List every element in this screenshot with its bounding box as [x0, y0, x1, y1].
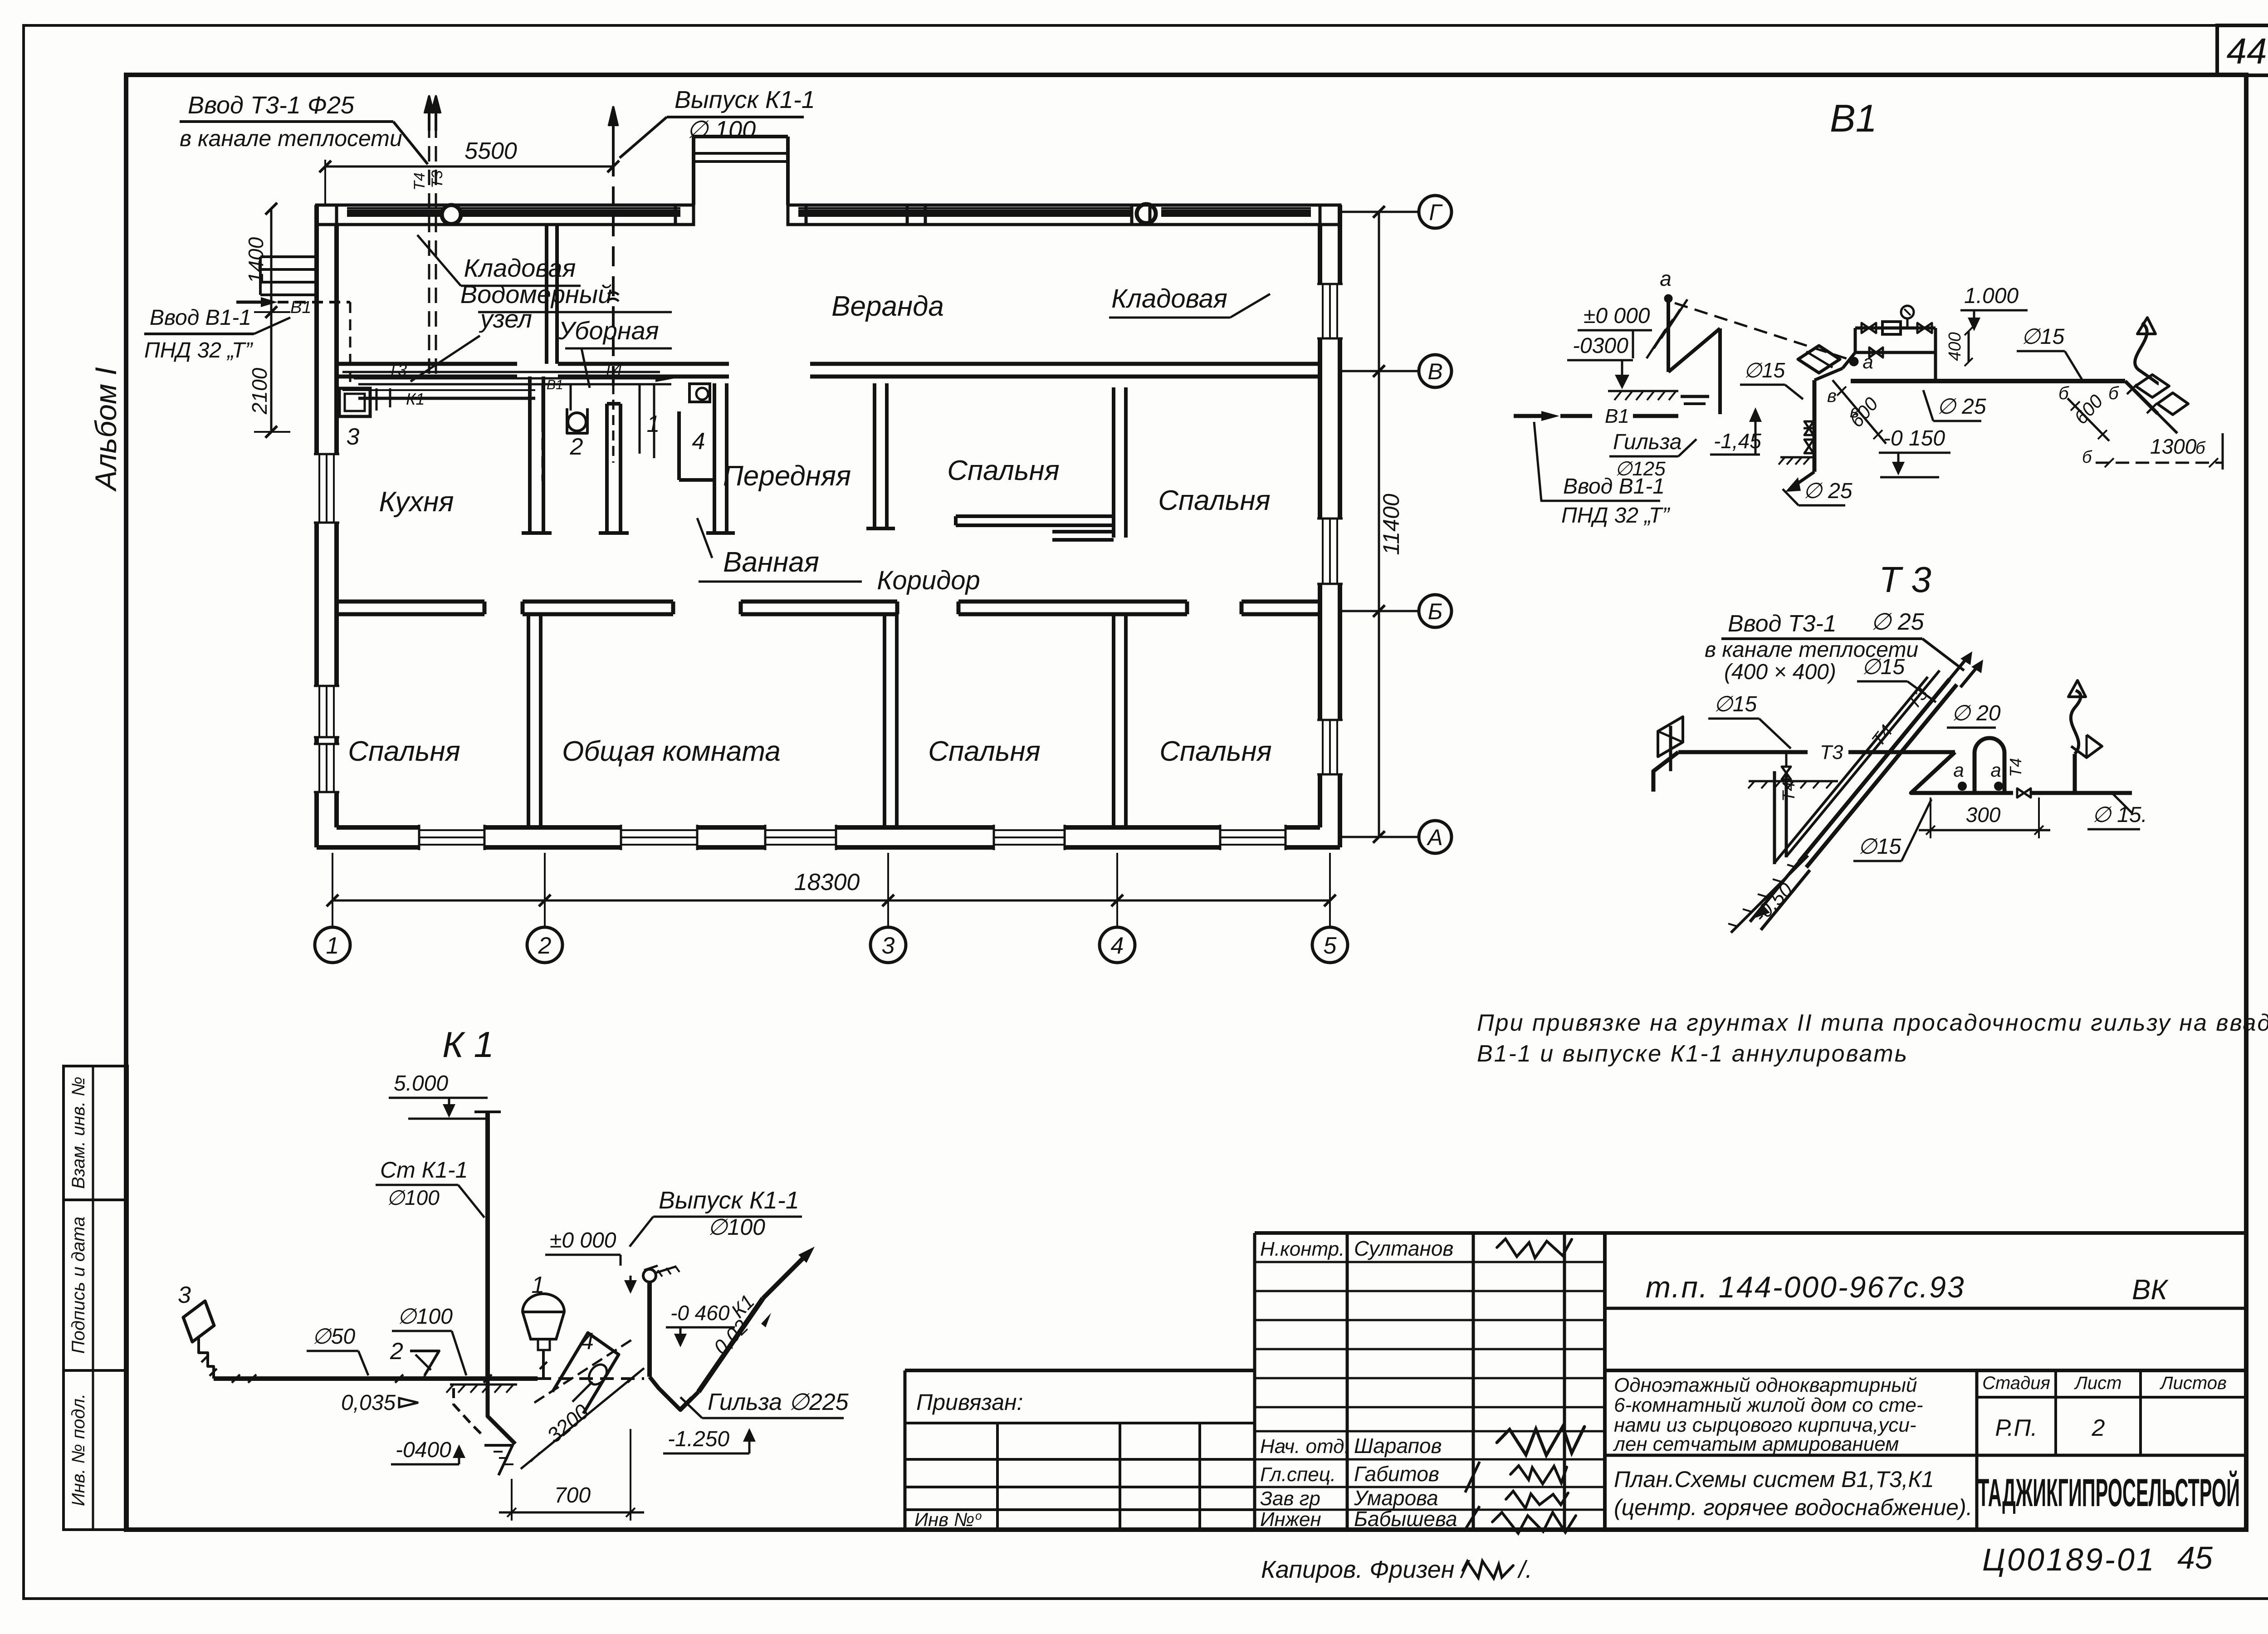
svg-text:Одноэтажный одноквартирный: Одноэтажный одноквартирный [1614, 1374, 1917, 1396]
svg-text:∅15: ∅15 [2021, 325, 2065, 349]
margin box Подпись и дата [64, 1200, 127, 1370]
svg-text:(центр. горячее водоснабжение): (центр. горячее водоснабжение). [1614, 1495, 1973, 1520]
svg-text:Т3: Т3 [1820, 741, 1843, 763]
svg-text:Стадия: Стадия [1982, 1373, 2050, 1393]
svg-text:Спальня: Спальня [348, 736, 460, 767]
K1 ticks on main pipe [232, 1375, 240, 1383]
svg-text:Умарова: Умарова [1354, 1486, 1438, 1510]
svg-text:Капиров. Фризен /: Капиров. Фризен / [1261, 1556, 1470, 1583]
svg-text:5.000: 5.000 [394, 1071, 448, 1096]
B1 right drop group [2125, 381, 2158, 414]
dimension 18300 bottom [332, 900, 1330, 902]
svg-text:6-комнатный жилой дом со сте-: 6-комнатный жилой дом со сте- [1614, 1394, 1923, 1416]
svg-text:11400: 11400 [1378, 494, 1404, 555]
svg-text:б: б [2108, 383, 2119, 403]
svg-text:Т4: Т4 [2006, 758, 2025, 777]
svg-text:∅50: ∅50 [312, 1325, 356, 1349]
margin box Инв. № подл. [64, 1370, 127, 1530]
svg-text:∅15: ∅15 [1714, 692, 1757, 716]
svg-text:Г: Г [1429, 200, 1443, 225]
K1 bath parallelogram [552, 1333, 619, 1414]
svg-text:Кладовая: Кладовая [1111, 284, 1227, 313]
svg-text:2100: 2100 [248, 367, 271, 415]
B1 diagonal dim 600 left [1833, 380, 1886, 444]
sink fixture plan [689, 384, 710, 402]
svg-text:В1-1 и выпуске К1-1 аннулирова: В1-1 и выпуске К1-1 аннулировать [1477, 1041, 1908, 1067]
svg-text:∅100: ∅100 [386, 1186, 440, 1209]
svg-text:1: 1 [647, 411, 660, 437]
veranda window rail [347, 210, 442, 217]
svg-text:Т4: Т4 [411, 172, 428, 191]
svg-text:Выпуск К1-1: Выпуск К1-1 [675, 86, 815, 113]
svg-text:2: 2 [390, 1338, 403, 1365]
svg-text:-1,45: -1,45 [1714, 429, 1761, 453]
svg-text:5: 5 [1324, 933, 1337, 959]
svg-text:К 1: К 1 [442, 1024, 494, 1065]
svg-text:∅100: ∅100 [397, 1305, 453, 1329]
svg-text:∅15: ∅15 [1744, 358, 1785, 382]
T3 right wavy riser [2071, 690, 2081, 754]
svg-text:∅15: ∅15 [1862, 655, 1905, 679]
svg-text:Ввод Т3-1: Ввод Т3-1 [1728, 611, 1837, 637]
T3 valve drop [1785, 752, 1788, 767]
svg-text:Спальня: Спальня [928, 736, 1041, 767]
svg-text:700: 700 [554, 1483, 591, 1507]
svg-text:5500: 5500 [464, 138, 517, 164]
B1 ground hatch [1608, 390, 1678, 392]
bedroom1 closet wall [1052, 530, 1114, 533]
svg-text:±0 000: ±0 000 [1584, 304, 1650, 328]
entrance porch top [692, 137, 695, 205]
svg-text:Спальня: Спальня [1158, 485, 1271, 516]
svg-text:Т3: Т3 [388, 361, 407, 379]
svg-text:2: 2 [570, 434, 583, 460]
svg-text:В1: В1 [1830, 97, 1877, 140]
svg-text:Зав гр: Зав гр [1260, 1487, 1320, 1510]
svg-text:Ц00189-01: Ц00189-01 [1982, 1542, 2156, 1577]
svg-text:Веранда: Веранда [831, 291, 944, 322]
svg-text:План.Схемы систем В1,Т3,К1: План.Схемы систем В1,Т3,К1 [1614, 1467, 1934, 1492]
toilet fixture plan [567, 408, 587, 433]
svg-text:Привязан:: Привязан: [916, 1389, 1023, 1415]
svg-text:3: 3 [178, 1282, 191, 1308]
svg-text:б: б [2058, 383, 2069, 403]
svg-text:2: 2 [2092, 1415, 2105, 1441]
T3 right valve and outlet [2017, 788, 2024, 797]
svg-text:4: 4 [1111, 933, 1124, 959]
svg-text:Общая комната: Общая комната [562, 736, 781, 767]
sheet number box 44 top right [2217, 25, 2268, 75]
K1 sink1 bell [523, 1294, 564, 1339]
B1 right flexible hose [2135, 323, 2159, 384]
svg-text:18300: 18300 [794, 869, 860, 895]
svg-text:∅ 100: ∅ 100 [687, 116, 756, 143]
svg-text:o: o [975, 1509, 982, 1522]
extra pipe drops near bathroom [639, 384, 641, 454]
B1 water meter assembly [1855, 327, 1936, 330]
B1 long pipe [1851, 379, 2125, 383]
K1 outlet arrow [763, 1256, 806, 1298]
north wall of heated part [337, 362, 517, 366]
svg-text:К1: К1 [406, 390, 425, 408]
svg-text:300: 300 [1966, 803, 2001, 827]
svg-text:-0400: -0400 [396, 1438, 451, 1462]
B1 right mixer diamonds [2136, 375, 2169, 397]
svg-text:В1: В1 [290, 298, 311, 317]
K1 funnel 2 [410, 1351, 439, 1375]
svg-text:4: 4 [692, 428, 705, 455]
svg-text:б: б [2195, 439, 2206, 458]
svg-text:При привязке на грунтах II тип: При привязке на грунтах II типа просадоч… [1477, 1010, 2268, 1036]
B1 inlet arrow and pipe [1514, 414, 1548, 418]
svg-text:Уборная: Уборная [558, 316, 659, 345]
T3 lower tail [1773, 771, 1776, 864]
left exterior wall [314, 205, 319, 847]
partition bedroom3-bedroom4 wall [1112, 614, 1115, 827]
svg-text:(400 × 400): (400 × 400) [1724, 660, 1836, 684]
svg-text:Гильза: Гильза [1613, 430, 1681, 454]
svg-text:Инв №: Инв № [914, 1509, 974, 1530]
svg-text:∅ 25: ∅ 25 [1937, 395, 1986, 419]
T3 zigzag to loop [1911, 752, 2013, 793]
svg-text:Инв. № подл.: Инв. № подл. [68, 1394, 88, 1506]
title block signature table grid [1253, 1233, 1256, 1530]
riser pipes T4 T3 dashed [428, 122, 430, 377]
svg-text:44: 44 [2227, 31, 2267, 71]
dimension 11400 right [1378, 212, 1380, 837]
K1 main pipe [214, 1376, 538, 1381]
svg-text:а: а [1862, 351, 1873, 372]
svg-text:Н.контр.: Н.контр. [1260, 1238, 1344, 1260]
svg-text:Коридор: Коридор [877, 566, 980, 595]
partition toilet east wall [605, 404, 609, 533]
pipe bundle along north wall [342, 371, 660, 373]
partition bathroom east wall [713, 383, 716, 533]
storeroom east wall in veranda [545, 225, 548, 364]
svg-text:Лист: Лист [2074, 1373, 2122, 1393]
svg-text:Ввод Т3-1 Ф25: Ввод Т3-1 Ф25 [188, 92, 355, 119]
svg-text:∅ 25: ∅ 25 [1803, 479, 1853, 503]
veranda round column right [1137, 204, 1156, 223]
svg-text:в: в [1827, 386, 1837, 406]
T3 right diamonds [2071, 735, 2102, 758]
T3 section points a-a [1959, 783, 1966, 790]
svg-text:а: а [1990, 759, 2001, 781]
bottom exterior wall [317, 845, 1340, 850]
svg-text:Листов: Листов [2159, 1373, 2227, 1393]
svg-text:Альбом I: Альбом I [89, 367, 122, 492]
svg-text:Подпись и дата: Подпись и дата [68, 1217, 88, 1354]
corridor south wall on axis Б [337, 600, 484, 604]
K1 outlet diagonal pipe [650, 1377, 699, 1410]
svg-text:Кладовая: Кладовая [464, 254, 576, 282]
svg-text:Бабышева: Бабышева [1354, 1507, 1457, 1531]
partition living-bedroom3 wall [883, 614, 886, 827]
sewer riser K1 dashed [612, 157, 615, 391]
svg-text:Ванная: Ванная [723, 547, 819, 578]
svg-text:ТАДЖИКГИПРОСЕЛЬСТРОЙ: ТАДЖИКГИПРОСЕЛЬСТРОЙ [1978, 1471, 2240, 1515]
svg-text:1.000: 1.000 [1964, 284, 2019, 308]
svg-text:Б: Б [1428, 599, 1443, 624]
svg-text:1400: 1400 [244, 237, 268, 284]
svg-text:Ввод В1-1: Ввод В1-1 [1563, 475, 1665, 499]
svg-text:узел: узел [479, 304, 532, 333]
margin box Взам. инв. № [64, 1066, 127, 1200]
left outside steps [260, 255, 315, 258]
K1 stack lower bend [488, 1377, 515, 1444]
K1 dim 700 [511, 1479, 513, 1521]
B1 meter riser [1813, 380, 1817, 472]
svg-text:Выпуск К1-1: Выпуск К1-1 [659, 1187, 799, 1214]
T3 dim 300 [1930, 797, 1931, 838]
svg-text:Султанов: Султанов [1354, 1237, 1453, 1260]
bath niche wall [677, 411, 681, 480]
svg-text:3: 3 [347, 424, 360, 450]
svg-text:∅ 25: ∅ 25 [1871, 609, 1925, 635]
svg-text:Инжен: Инжен [1260, 1508, 1321, 1531]
axis letter circles Г В Б А [1342, 211, 1419, 213]
K1 hatch wedge [484, 1445, 513, 1475]
svg-text:ПНД 32 „Т”: ПНД 32 „Т” [1561, 504, 1670, 528]
veranda top wall lines [317, 204, 694, 207]
svg-text:Ст К1-1: Ст К1-1 [380, 1157, 468, 1183]
svg-text:0,035: 0,035 [341, 1391, 396, 1415]
svg-text:В: В [1427, 359, 1442, 384]
svg-text:в канале теплосети: в канале теплосети [180, 126, 402, 151]
svg-text:Р.П.: Р.П. [1995, 1415, 2037, 1441]
B1 entry arrow [236, 301, 267, 304]
svg-text:Т3: Т3 [429, 170, 446, 188]
svg-text:/.: /. [1517, 1556, 1532, 1583]
svg-text:-1.250: -1.250 [668, 1427, 729, 1451]
bedroom2 south wall [956, 514, 1114, 518]
svg-text:∅100: ∅100 [708, 1214, 765, 1240]
veranda round column left [442, 205, 461, 224]
svg-text:3: 3 [882, 933, 895, 959]
B1 dim 1300 [2096, 462, 2223, 464]
svg-text:Передняя: Передняя [723, 460, 851, 492]
svg-text:Кухня: Кухня [379, 486, 454, 518]
svg-text:Спальня: Спальня [1159, 736, 1272, 767]
svg-text:т.п. 144-000-967с.93: т.п. 144-000-967с.93 [1646, 1270, 1965, 1304]
K1 diagonal dim 3200 [521, 1368, 644, 1469]
T3 main pipe [1653, 752, 1678, 792]
svg-text:±0 000: ±0 000 [550, 1228, 616, 1252]
B1 dashed sight line [1675, 303, 1849, 359]
svg-text:лен сетчатым армированием: лен сетчатым армированием [1613, 1433, 1899, 1455]
T3 ground line and -0.50 [1731, 856, 1808, 933]
veranda posts [675, 205, 694, 225]
svg-text:Т4: Т4 [603, 360, 622, 378]
svg-text:Габитов: Габитов [1354, 1462, 1439, 1486]
K1 vent top [643, 1269, 656, 1282]
partition south bedroom-living wall [527, 614, 530, 827]
svg-text:Нач. отд.: Нач. отд. [1260, 1435, 1350, 1458]
svg-text:Т 3: Т 3 [1879, 559, 1931, 600]
partition hall east wall [873, 383, 876, 528]
svg-text:∅ 20: ∅ 20 [1951, 701, 2001, 725]
partition bedroom2 wall [1112, 387, 1115, 538]
title block right box grid [1603, 1233, 1607, 1530]
T3 diagonal supply pair [1799, 679, 1950, 862]
dimension 5500 top [325, 166, 613, 168]
T3 left riser flag [1669, 726, 1672, 771]
K1 ground hatch right of stack [450, 1384, 517, 1386]
dimension 1400 left [270, 209, 273, 312]
svg-text:б: б [2082, 448, 2092, 467]
B1 diagonal dim 600 right [2068, 398, 2109, 441]
svg-text:∅15: ∅15 [1858, 835, 1901, 859]
vent arrow Выпуск К1-1 [612, 109, 615, 157]
svg-text:-0 150: -0 150 [1883, 426, 1945, 450]
svg-text:Гл.спец.: Гл.спец. [1260, 1463, 1336, 1486]
svg-text:Гильза ∅225: Гильза ∅225 [708, 1389, 849, 1415]
svg-text:Ввод В1-1: Ввод В1-1 [150, 306, 251, 330]
svg-text:А: А [1426, 825, 1442, 850]
svg-text:400: 400 [1945, 332, 1965, 361]
svg-text:45: 45 [2177, 1540, 2213, 1575]
svg-text:ПНД 32 „Т”: ПНД 32 „Т” [144, 338, 253, 362]
svg-text:-0 460: -0 460 [670, 1301, 730, 1325]
partition bathroom west wall [528, 377, 532, 533]
svg-text:В1: В1 [1605, 405, 1629, 427]
dimension 2100 left [270, 312, 273, 432]
svg-text:ВК: ВК [2132, 1274, 2169, 1306]
K1 right riser [647, 1282, 652, 1377]
svg-text:Взам. инв. №: Взам. инв. № [68, 1076, 88, 1189]
K1 stack [485, 1112, 490, 1377]
svg-text:1: 1 [326, 933, 339, 959]
right exterior wall [1338, 205, 1342, 847]
svg-text:Т4: Т4 [1779, 782, 1799, 802]
svg-text:∅ 15.: ∅ 15. [2092, 803, 2147, 827]
sewer line K1 in plan [358, 397, 535, 400]
left attachment table Привязан [904, 1370, 907, 1530]
svg-text:В1: В1 [547, 377, 563, 392]
svg-text:Шарапов: Шарапов [1354, 1434, 1442, 1458]
K1 sink3 parallelogram [183, 1301, 214, 1342]
axis circles 1-5 [315, 927, 350, 963]
svg-text:2: 2 [538, 933, 552, 959]
svg-text:а: а [1660, 267, 1672, 290]
svg-text:Спальня: Спальня [947, 455, 1060, 486]
water meter unit box [339, 388, 370, 416]
svg-text:-0300: -0300 [1573, 334, 1628, 358]
B1 dim 400 [1968, 331, 1970, 362]
B1 break zigzag [1667, 301, 1670, 372]
svg-text:1300: 1300 [2150, 435, 2197, 458]
svg-text:а: а [1953, 759, 1964, 781]
